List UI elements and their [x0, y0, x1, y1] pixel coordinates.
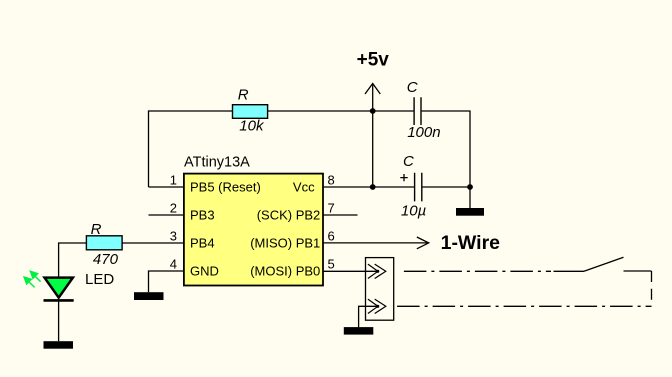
wire: C2 right plate to right vertical — [422, 186, 470, 188]
svg-text:PB5 (Reset): PB5 (Reset) — [190, 179, 261, 194]
resistor R2 (470) body — [86, 236, 122, 250]
svg-text:R: R — [91, 221, 102, 238]
wire: pin 8 Vcc to C2 left plate — [322, 186, 414, 188]
svg-text:7: 7 — [328, 201, 335, 216]
svg-text:(SCK) PB2: (SCK) PB2 — [257, 207, 321, 222]
svg-text:470: 470 — [93, 251, 119, 268]
wire: R1 right to C1 left plate — [268, 110, 414, 112]
connector lower chevron pair — [368, 299, 386, 313]
svg-text:2: 2 — [170, 201, 177, 216]
capacitor C1 (100n) plates — [414, 97, 421, 125]
svg-text:PB3: PB3 — [190, 207, 215, 222]
svg-text:4: 4 — [170, 257, 177, 272]
+5v arrowhead — [365, 84, 380, 95]
IC U1 ATtiny13A body — [184, 174, 323, 286]
connector upper pin dot — [376, 270, 379, 273]
svg-text:6: 6 — [328, 229, 335, 244]
svg-text:10µ: 10µ — [401, 202, 426, 219]
junction: top net / +5v — [370, 108, 376, 114]
svg-text:(MOSI) PB0: (MOSI) PB0 — [250, 263, 320, 278]
svg-text:(MISO) PB1: (MISO) PB1 — [250, 235, 320, 250]
LED D1 triangle — [45, 278, 73, 298]
junction: C2 right / ground — [467, 184, 473, 190]
svg-text:100n: 100n — [407, 124, 440, 141]
svg-text:PB4: PB4 — [190, 235, 215, 250]
wire: pin 1 stub — [149, 186, 185, 188]
ground: right (under C2 junction) — [456, 208, 484, 216]
svg-text:3: 3 — [170, 229, 177, 244]
svg-text:LED: LED — [85, 271, 114, 288]
LED light arrow 1 — [30, 271, 40, 282]
connector lower pin dot — [376, 305, 379, 308]
connector J1 box — [366, 258, 394, 321]
svg-text:Vcc: Vcc — [293, 179, 315, 194]
cable dash-dot upper run — [404, 270, 551, 272]
ground: under pin 4 — [134, 292, 164, 300]
wire: left vertical from top net to pin 1 — [148, 110, 150, 187]
wire: C1 right plate to right corner, down to ground — [422, 111, 470, 208]
switch right contact — [624, 270, 652, 272]
polarity plus sign — [400, 174, 407, 181]
wire: connector lower pin to ground — [359, 306, 378, 327]
wire: pin 7 stub — [322, 214, 358, 216]
wire: pin 5 into connector — [322, 270, 378, 272]
svg-text:GND: GND — [190, 263, 219, 278]
connector upper chevron pair — [368, 264, 386, 278]
svg-text:1-Wire: 1-Wire — [441, 232, 501, 254]
svg-text:5: 5 — [328, 257, 335, 272]
switch lever — [584, 257, 624, 271]
wire: LED cathode to ground — [58, 301, 60, 342]
wire: pin 2 stub — [149, 214, 185, 216]
wire: top net from left corner to R1 — [149, 110, 233, 112]
svg-text:R: R — [238, 87, 249, 104]
capacitor C2 (10u) plates — [415, 173, 422, 202]
cable dashed right vertical — [651, 271, 653, 306]
LED cathode bar — [44, 299, 74, 302]
svg-text:ATtiny13A: ATtiny13A — [184, 155, 250, 171]
1-Wire arrowhead — [417, 237, 429, 249]
svg-text:C: C — [407, 79, 418, 96]
resistor R1 (10k) body — [233, 105, 268, 119]
cable dash-dot lower run — [397, 305, 651, 307]
svg-text:C: C — [403, 153, 414, 170]
svg-text:1: 1 — [170, 173, 177, 188]
svg-text:+5v: +5v — [357, 49, 390, 70]
junction: Vcc net / +5v — [370, 184, 376, 190]
wire: pin 4 stub and down to ground — [149, 271, 185, 292]
LED light arrow 2 — [24, 277, 35, 288]
wire: R2 left to LED anode corner — [59, 243, 87, 278]
wire: +5v vertical — [372, 83, 374, 187]
svg-text:8: 8 — [328, 173, 335, 188]
switch left contact — [554, 270, 585, 272]
ground: under LED — [44, 341, 74, 349]
wire: pin 6 to 1-Wire arrow — [322, 242, 429, 244]
ground: under connector — [344, 327, 374, 335]
wire: pin 3 to R2 — [122, 242, 184, 244]
svg-text:10k: 10k — [239, 117, 265, 134]
